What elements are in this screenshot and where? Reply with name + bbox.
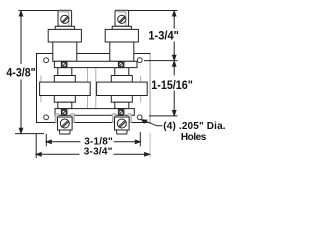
svg-text:1-15/16": 1-15/16" [151,78,193,92]
svg-text:1-3/4": 1-3/4" [148,29,179,43]
svg-text:(4) .205" Dia.: (4) .205" Dia. [163,121,225,132]
svg-text:Holes: Holes [181,132,207,143]
svg-text:4-3/8": 4-3/8" [6,65,35,79]
svg-text:3-3/4": 3-3/4" [84,147,113,158]
